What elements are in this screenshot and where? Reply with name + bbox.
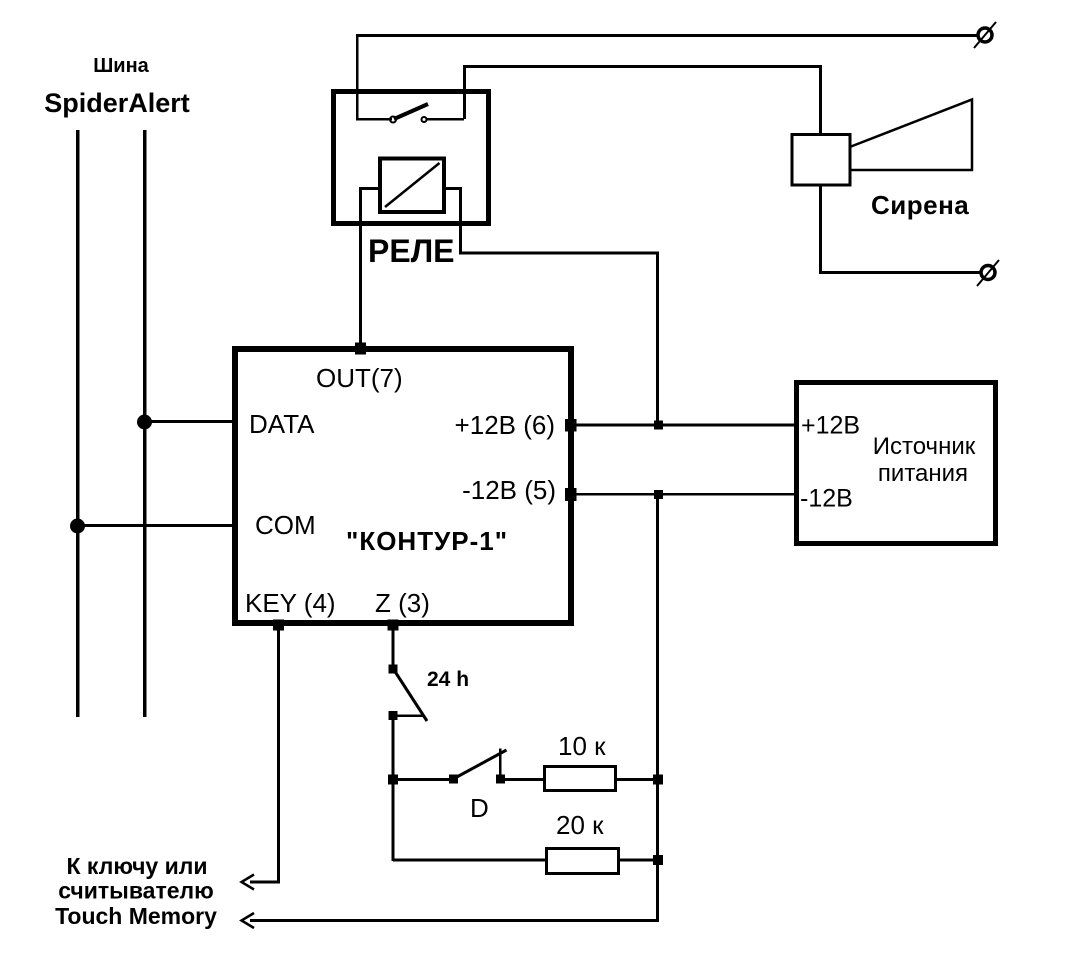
svg-text:"КОНТУР-1": "КОНТУР-1" — [346, 526, 508, 556]
svg-text:РЕЛЕ: РЕЛЕ — [368, 233, 454, 269]
wire down to 20k branch — [392, 780, 395, 861]
wire siren bottom drop — [819, 186, 822, 273]
junction COM dot — [70, 519, 85, 534]
resistor 10k — [545, 767, 616, 791]
switch 24h bottom terminal — [389, 711, 398, 720]
pin Z square — [388, 620, 399, 631]
svg-text:+12В (6): +12В (6) — [455, 410, 555, 440]
wire relay right lead down — [459, 224, 462, 254]
wire KEY to arrow — [250, 881, 280, 884]
wire +12V to supply — [576, 424, 794, 427]
svg-text:питания: питания — [878, 460, 968, 487]
wire DATA — [144, 420, 232, 423]
svg-text:Сирена: Сирена — [871, 190, 969, 220]
svg-text:D: D — [470, 793, 489, 823]
svg-text:+12В: +12В — [801, 412, 860, 440]
switch 24h blade — [394, 670, 427, 721]
junction D square — [388, 775, 398, 785]
junction 10k square — [653, 775, 663, 785]
arrow to touch memory — [242, 913, 255, 928]
junction DATA dot — [137, 415, 152, 430]
wire rail to touch memory arrow — [250, 919, 659, 922]
svg-text:-12В: -12В — [800, 485, 853, 513]
wire -12V to supply — [576, 493, 794, 496]
switch D right terminal — [496, 775, 505, 784]
svg-text:считывателю: считывателю — [58, 878, 214, 904]
svg-text:KEY (4): KEY (4) — [245, 588, 336, 618]
wire second horizontal to siren — [463, 65, 822, 68]
svg-text:COM: COM — [255, 510, 316, 540]
wire relay switch right drop — [463, 65, 466, 119]
pin +12V square — [565, 419, 577, 432]
svg-text:SpiderAlert: SpiderAlert — [44, 88, 190, 118]
svg-text:Источник: Источник — [873, 433, 976, 460]
svg-text:10 к: 10 к — [558, 731, 606, 761]
relay switch wire left — [356, 118, 392, 121]
relay switch wire right — [427, 118, 464, 121]
pin KEY square — [273, 620, 284, 631]
terminal circle right — [981, 266, 995, 280]
svg-text:OUT(7): OUT(7) — [316, 363, 403, 393]
terminal circle top right — [978, 28, 992, 42]
wire 20k branch horizontal — [393, 859, 546, 862]
switch D right post — [499, 749, 502, 779]
relay switch contact left — [390, 117, 396, 123]
wire COM — [77, 524, 232, 527]
junction -12V square — [654, 490, 663, 499]
svg-text:К ключу или: К ключу или — [66, 853, 207, 879]
svg-text:Z (3): Z (3) — [375, 588, 430, 618]
junction +12V square — [654, 421, 663, 430]
svg-text:Touch Memory: Touch Memory — [55, 903, 217, 929]
svg-text:DATA: DATA — [249, 409, 315, 439]
wire switch D to resistor — [505, 778, 545, 781]
relay switch blade — [394, 104, 428, 119]
relay coil right lead — [446, 189, 461, 227]
arrow to key reader — [242, 875, 255, 890]
bus wire right — [143, 130, 147, 717]
svg-text:20 к: 20 к — [556, 810, 604, 840]
pin -12V square — [565, 488, 577, 501]
wire KEY down — [277, 630, 280, 882]
wire siren top drop — [819, 65, 822, 133]
KONTUR-1 box — [235, 349, 571, 623]
power supply box — [797, 383, 996, 544]
relay coil box — [380, 159, 444, 213]
bus wire left — [76, 130, 80, 717]
svg-text:24 h: 24 h — [427, 668, 469, 691]
switch 24h top terminal — [389, 665, 398, 674]
siren box — [792, 135, 850, 186]
resistor 20k — [547, 849, 619, 874]
switch D left terminal — [449, 775, 458, 784]
wire Z down — [392, 630, 395, 666]
wire junction to switch D — [393, 778, 451, 781]
wire OUT lead down to KONTUR — [359, 224, 362, 348]
wire to bottom-right terminal — [819, 271, 980, 274]
junction 20k square — [653, 855, 663, 865]
wire right rail lower segment — [656, 495, 659, 921]
wire right rail upper segment — [656, 252, 659, 426]
relay box — [334, 92, 489, 224]
relay switch contact right — [422, 117, 427, 122]
wire top horizontal to terminal — [356, 34, 978, 37]
wire horizontal relay to right rail — [459, 252, 659, 255]
svg-text:-12В (5): -12В (5) — [462, 475, 556, 505]
siren horn — [851, 100, 972, 171]
relay coil diagonal — [385, 163, 440, 207]
pin OUT(7) square — [355, 343, 366, 355]
relay coil left lead — [361, 189, 379, 227]
svg-text:Шина: Шина — [93, 55, 149, 77]
wire relay switch left drop — [356, 34, 359, 119]
switch 24h stub — [397, 715, 424, 718]
wire resistor 10k to rail — [617, 778, 657, 781]
wire resistor 20k to rail — [619, 859, 655, 862]
wire 24h to junction — [392, 718, 395, 780]
switch D blade — [455, 750, 507, 778]
